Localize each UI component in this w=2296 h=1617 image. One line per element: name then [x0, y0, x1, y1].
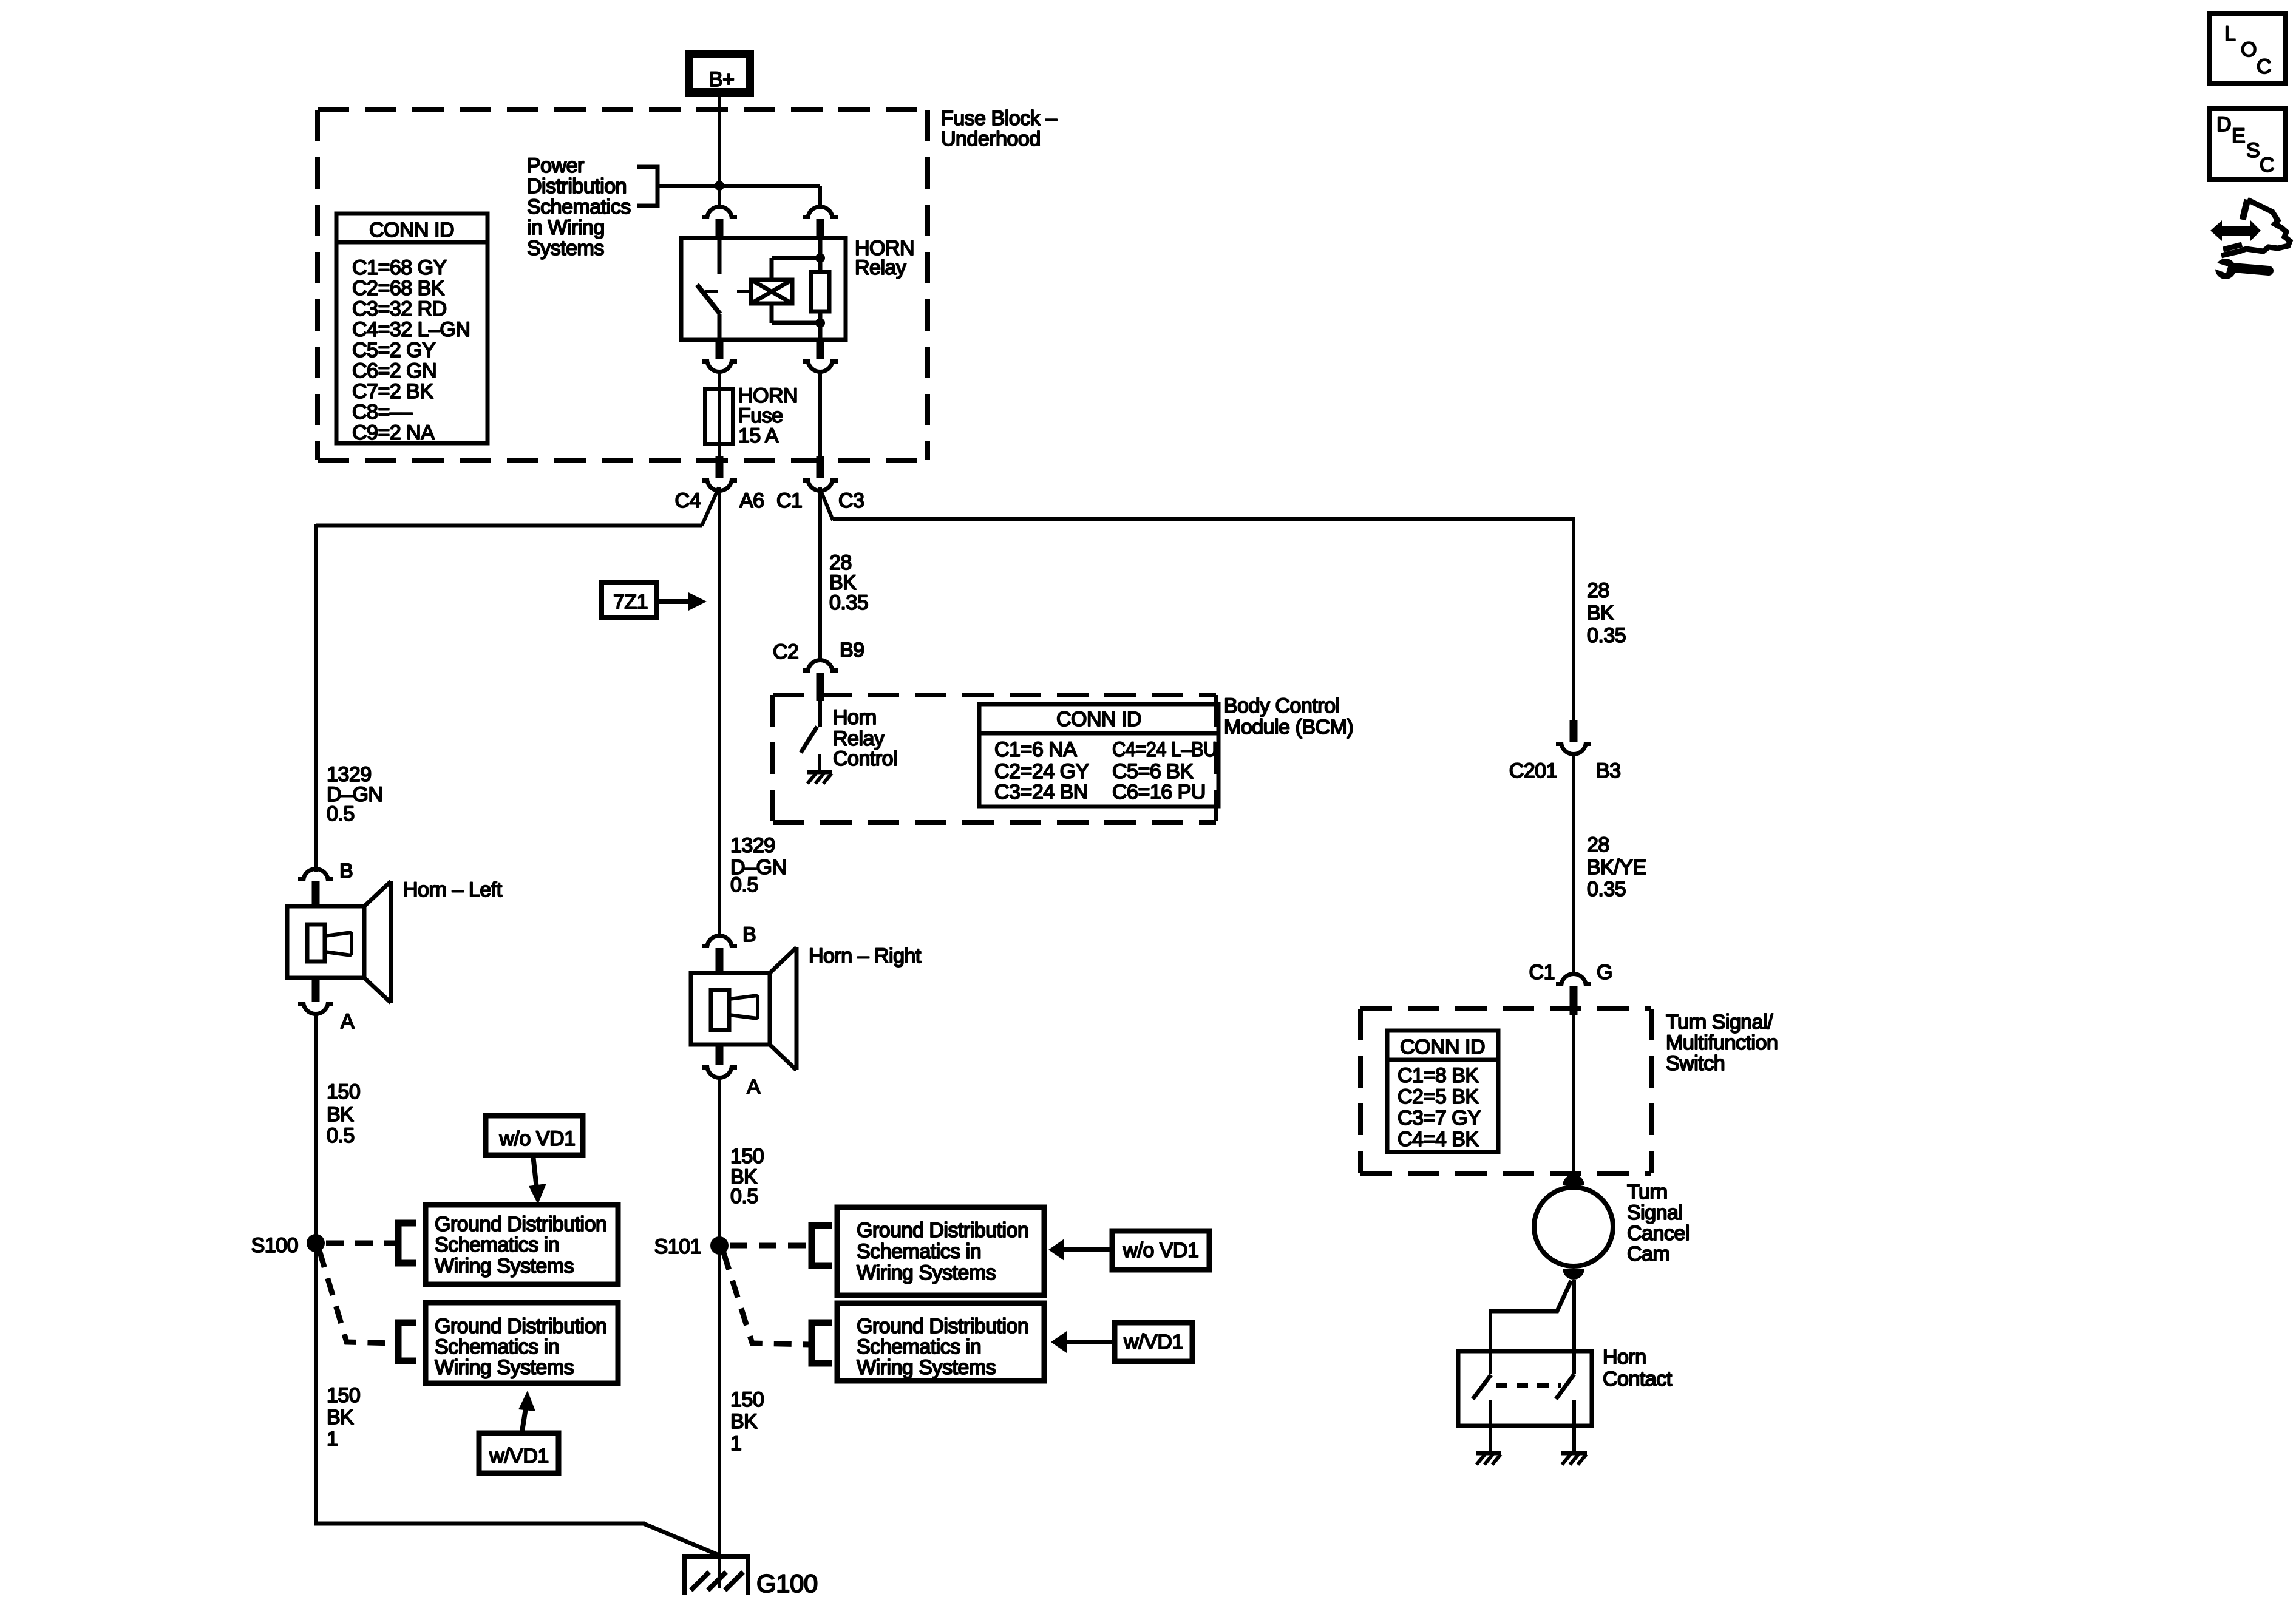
svg-text:C9=2 NA: C9=2 NA — [352, 421, 435, 444]
svg-text:Cancel: Cancel — [1627, 1222, 1690, 1245]
svg-text:Ground Distribution: Ground Distribution — [857, 1315, 1028, 1338]
power distribution reference bracket — [637, 167, 657, 206]
svg-text:Ground Distribution: Ground Distribution — [435, 1213, 606, 1236]
ground distribution reference box 2 left — [426, 1303, 618, 1383]
svg-text:Power: Power — [527, 154, 584, 177]
wire fuse to C4 pin — [718, 444, 721, 457]
svg-text:Wiring Systems: Wiring Systems — [435, 1255, 574, 1278]
svg-text:C5=2 GY: C5=2 GY — [352, 339, 435, 362]
pin bar into horn left — [312, 881, 320, 908]
svg-text:28: 28 — [1587, 833, 1609, 856]
icon LOC box — [2209, 13, 2285, 83]
wire relay right branch down — [818, 370, 822, 457]
svg-text:7Z1: 7Z1 — [613, 591, 648, 614]
svg-text:C201: C201 — [1509, 759, 1557, 782]
horn contact lever linkage — [1557, 1281, 1571, 1312]
svg-text:C2: C2 — [773, 640, 798, 663]
svg-text:0.5: 0.5 — [327, 802, 355, 825]
wire from B+ down to junction — [718, 97, 721, 188]
node S101 splice — [710, 1236, 729, 1255]
arrow 7Z1 to wire — [656, 599, 690, 604]
ground chassis left horn contact — [1476, 1451, 1501, 1456]
wire center vertical down to horn right — [718, 487, 721, 938]
svg-text:BK: BK — [327, 1103, 354, 1126]
horn relay control fixed contact — [818, 754, 821, 771]
svg-text:1: 1 — [730, 1432, 741, 1455]
bracket ground distribution 1 center — [812, 1225, 832, 1266]
svg-text:150: 150 — [327, 1080, 360, 1103]
relay coil bottom lead — [770, 303, 774, 323]
pin bar through fuse block edge right — [817, 456, 824, 478]
svg-text:S100: S100 — [251, 1234, 298, 1257]
svg-text:Control: Control — [833, 747, 897, 770]
svg-text:BK: BK — [327, 1406, 354, 1429]
horn contact left blade — [1473, 1375, 1491, 1399]
svg-text:C3=7 GY: C3=7 GY — [1398, 1107, 1481, 1130]
horn contact left fixed contact — [1489, 1400, 1492, 1451]
svg-text:CONN ID: CONN ID — [1056, 708, 1141, 731]
wire C1 down to BCM — [818, 487, 822, 662]
wire horn right down to S101 — [718, 1076, 721, 1246]
svg-text:C1=8 BK: C1=8 BK — [1398, 1064, 1479, 1087]
svg-text:C6=2 GN: C6=2 GN — [352, 359, 436, 382]
svg-text:Underhood: Underhood — [941, 127, 1041, 151]
label 7Z1 circuit box — [602, 582, 656, 617]
arrow w/o VD1 to box1 left — [533, 1155, 537, 1188]
pin bar through fuse block edge left — [716, 456, 724, 478]
horn right cone — [770, 947, 796, 973]
svg-text:C1=68 GY: C1=68 GY — [352, 256, 447, 279]
pin bar into C201 — [1570, 720, 1578, 742]
cam follower lower contact — [1563, 1269, 1584, 1280]
icon DESC box — [2209, 109, 2285, 180]
horn right inner element — [711, 990, 729, 1030]
svg-text:Contact: Contact — [1603, 1368, 1673, 1391]
svg-text:Body Control: Body Control — [1224, 694, 1340, 717]
connector cup below relay left — [705, 359, 734, 374]
svg-text:0.35: 0.35 — [829, 591, 868, 614]
svg-text:C4: C4 — [675, 489, 701, 512]
svg-text:A: A — [341, 1010, 355, 1033]
relay switch fixed wire — [718, 240, 722, 274]
svg-text:Multifunction: Multifunction — [1666, 1031, 1778, 1054]
fuse block - underhood dashed box — [318, 107, 928, 112]
connector cup horn left A — [301, 1002, 330, 1016]
connector cup below relay right — [806, 359, 835, 374]
svg-text:1329: 1329 — [730, 834, 775, 857]
svg-text:O: O — [2241, 38, 2257, 61]
node coil-resistor top junction — [815, 253, 825, 263]
wire relay to fuse — [718, 370, 721, 392]
svg-text:C5=6 BK: C5=6 BK — [1112, 760, 1194, 783]
svg-text:Relay: Relay — [855, 256, 906, 279]
node coil-resistor bottom junction — [815, 318, 825, 328]
pin bar below relay right — [817, 340, 824, 359]
conn id table BCM — [979, 704, 1218, 807]
svg-text:B: B — [339, 859, 353, 883]
svg-text:S: S — [2246, 139, 2260, 162]
svg-text:S101: S101 — [654, 1235, 701, 1258]
svg-text:Ground Distribution: Ground Distribution — [857, 1219, 1028, 1242]
horn contact box — [1458, 1351, 1592, 1426]
svg-text:C: C — [2260, 154, 2274, 177]
svg-text:Turn Signal/: Turn Signal/ — [1666, 1011, 1773, 1034]
ground distribution reference box 2 center — [837, 1303, 1044, 1381]
horn right body box — [691, 973, 770, 1045]
horn relay control switch wire — [818, 699, 822, 727]
bracket ground distribution 2 left — [398, 1323, 416, 1361]
svg-text:Systems: Systems — [527, 237, 604, 260]
bracket ground distribution 2 center — [812, 1323, 832, 1363]
wire right vertical down to C201 — [1572, 517, 1575, 722]
connector cap above relay left pin — [705, 205, 734, 219]
connector cap horn right B — [705, 934, 734, 948]
dashed wire S101 to ground distribution 1 — [730, 1243, 809, 1249]
svg-text:C: C — [2257, 55, 2271, 78]
horn contact gang link dashed — [1496, 1383, 1561, 1388]
ground chassis right horn contact — [1561, 1451, 1587, 1456]
relay switch blade — [697, 285, 720, 314]
svg-text:C1: C1 — [776, 489, 802, 512]
svg-text:BK: BK — [730, 1410, 758, 1433]
relay coil left lead — [737, 290, 751, 293]
arrow w/VD1 to box2 center — [1051, 1331, 1067, 1353]
pin bar below horn left — [312, 976, 320, 1002]
svg-text:0.5: 0.5 — [730, 1185, 758, 1208]
svg-text:C7=2 BK: C7=2 BK — [352, 380, 433, 403]
svg-text:Wiring Systems: Wiring Systems — [435, 1356, 574, 1379]
horn left inner trumpet — [325, 932, 352, 936]
svg-text:0.35: 0.35 — [1587, 624, 1626, 647]
horn left inner element — [307, 924, 325, 961]
body control module dashed box — [773, 693, 1216, 697]
wire left vertical down to horn left — [314, 524, 318, 872]
svg-text:C1=6 NA: C1=6 NA — [994, 738, 1077, 761]
svg-text:C6=16 PU: C6=16 PU — [1112, 781, 1206, 804]
svg-text:150: 150 — [327, 1384, 360, 1407]
ground distribution reference box 1 center — [837, 1207, 1044, 1295]
label w/o VD1 left box — [486, 1116, 583, 1155]
arrow w/VD1 to box2 left — [522, 1408, 526, 1431]
svg-text:w/VD1: w/VD1 — [1123, 1331, 1183, 1354]
svg-text:Turn: Turn — [1627, 1181, 1668, 1204]
svg-text:Horn: Horn — [833, 706, 877, 729]
svg-text:Wiring Systems: Wiring Systems — [857, 1356, 996, 1379]
bracket ground distribution 1 left — [398, 1223, 416, 1263]
relay coil box with X — [751, 280, 792, 303]
turn signal multifunction switch dashed box — [1360, 1006, 1651, 1011]
turn signal cancel cam circle — [1534, 1187, 1613, 1266]
svg-text:Horn – Left: Horn – Left — [403, 878, 503, 901]
label w/o VD1 right box — [1112, 1231, 1209, 1270]
svg-text:G: G — [1597, 961, 1612, 984]
relay HORN Relay box — [681, 238, 846, 340]
svg-text:B9: B9 — [840, 639, 864, 662]
connector cap C2 B9 — [806, 658, 835, 673]
svg-text:G100: G100 — [756, 1569, 818, 1598]
svg-text:C1: C1 — [1529, 961, 1555, 984]
ground chassis inside BCM — [807, 770, 832, 775]
node B+ battery feed terminal — [685, 50, 754, 97]
horn left body box — [287, 906, 364, 978]
svg-text:1: 1 — [327, 1428, 338, 1451]
svg-text:A6: A6 — [739, 489, 764, 512]
svg-text:15 A: 15 A — [738, 424, 779, 447]
svg-text:BK/YE: BK/YE — [1587, 856, 1646, 879]
connector cup C1 C3 — [806, 478, 835, 493]
svg-text:C2=5 BK: C2=5 BK — [1398, 1085, 1479, 1108]
relay switch lower wire — [718, 314, 722, 340]
pin bar below relay left — [716, 340, 724, 359]
svg-text:CONN ID: CONN ID — [369, 219, 454, 242]
svg-text:C3=32 RD: C3=32 RD — [352, 297, 447, 320]
cam follower upper contact — [1563, 1175, 1584, 1185]
svg-text:Schematics in: Schematics in — [435, 1233, 559, 1256]
wire junction to power distribution bracket — [657, 184, 719, 188]
svg-text:0.5: 0.5 — [730, 873, 758, 897]
svg-text:L: L — [2224, 22, 2235, 46]
pin bar into horn right — [716, 948, 724, 975]
fuse HORN Fuse 15 A — [705, 389, 733, 444]
svg-text:Horn – Right: Horn – Right — [809, 944, 922, 968]
ground distribution reference box 1 left — [426, 1205, 618, 1284]
svg-text:w/o VD1: w/o VD1 — [1123, 1239, 1199, 1262]
pin bar into relay left — [716, 219, 724, 239]
connector cap above relay right pin — [806, 205, 835, 219]
svg-text:Schematics: Schematics — [527, 195, 631, 219]
connector cup C4 A6 — [705, 478, 734, 493]
svg-text:C2=24 GY: C2=24 GY — [994, 760, 1089, 783]
svg-text:Switch: Switch — [1666, 1052, 1725, 1075]
horn relay control switch blade — [801, 727, 817, 753]
node junction on B+ feed — [715, 181, 724, 191]
svg-text:0.35: 0.35 — [1587, 878, 1626, 901]
label w/VD1 left box — [479, 1433, 559, 1473]
horn contact right fixed contact — [1572, 1400, 1576, 1451]
svg-text:Wiring Systems: Wiring Systems — [857, 1261, 996, 1284]
relay resistor branch lower wire — [818, 311, 823, 340]
pin bar below horn right — [716, 1043, 724, 1065]
svg-text:w/VD1: w/VD1 — [489, 1445, 549, 1468]
dashed wire S100 to ground distribution 1 — [326, 1241, 396, 1246]
dashed wire S100 to ground distribution 2 — [319, 1250, 396, 1343]
horn right inner trumpet — [729, 995, 758, 999]
svg-text:C2=68 BK: C2=68 BK — [352, 277, 445, 300]
ground G100 symbol — [682, 1554, 687, 1595]
relay resistor — [811, 272, 829, 311]
connector cap horn left B — [301, 867, 330, 881]
svg-text:Cam: Cam — [1627, 1242, 1669, 1266]
svg-text:C3=24 BN: C3=24 BN — [994, 781, 1088, 804]
svg-text:C4=32 L–GN: C4=32 L–GN — [352, 318, 470, 341]
wire horn left down to S100 — [314, 1012, 318, 1244]
svg-text:BK: BK — [1587, 602, 1614, 625]
pin bar into turn signal switch — [1570, 986, 1578, 1015]
wire inside turn signal switch to cam — [1572, 1012, 1575, 1176]
svg-text:A: A — [747, 1076, 761, 1099]
svg-text:CONN ID: CONN ID — [1400, 1036, 1485, 1059]
svg-text:Module (BCM): Module (BCM) — [1224, 716, 1353, 739]
wire branch to left horn — [702, 487, 719, 526]
svg-text:150: 150 — [730, 1388, 764, 1411]
icon double arrow with hand — [2210, 220, 2261, 241]
wire S100 down and across to G100 — [314, 1243, 318, 1525]
pin bar into relay right — [817, 219, 824, 239]
horn left cone — [364, 881, 391, 906]
svg-text:B+: B+ — [709, 68, 735, 91]
conn id table fuse block — [336, 214, 487, 443]
pin bar into BCM — [817, 673, 824, 701]
wire junction to relay coil branch — [719, 184, 820, 188]
svg-text:150: 150 — [730, 1145, 764, 1168]
horn contact right blade — [1556, 1374, 1574, 1399]
arrow w/o VD1 to box1 center — [1048, 1239, 1064, 1261]
svg-text:B: B — [742, 923, 756, 946]
svg-text:Schematics in: Schematics in — [857, 1240, 981, 1263]
svg-text:C4=24 L–BU: C4=24 L–BU — [1112, 738, 1217, 761]
connector cap C1 G — [1559, 972, 1588, 986]
svg-text:Horn: Horn — [1603, 1346, 1646, 1369]
svg-text:Fuse Block –: Fuse Block – — [941, 107, 1057, 130]
svg-text:C4=4 BK: C4=4 BK — [1398, 1128, 1479, 1151]
svg-text:Schematics in: Schematics in — [435, 1335, 559, 1358]
svg-text:in Wiring: in Wiring — [527, 216, 605, 239]
connector cup C201 B3 — [1559, 742, 1588, 756]
icon wrench — [2215, 259, 2236, 279]
svg-text:Distribution: Distribution — [527, 175, 627, 198]
svg-text:Signal: Signal — [1627, 1201, 1683, 1224]
svg-text:28: 28 — [1587, 579, 1609, 602]
dashed wire S101 to ground distribution 2 — [724, 1253, 809, 1344]
svg-text:D: D — [2216, 113, 2231, 136]
svg-text:B3: B3 — [1596, 759, 1621, 782]
relay resistor branch upper wire — [818, 240, 823, 272]
svg-text:w/o VD1: w/o VD1 — [499, 1127, 576, 1150]
svg-text:C3: C3 — [838, 489, 864, 512]
node S100 splice — [307, 1234, 325, 1252]
wire S101 down to G100 — [718, 1246, 721, 1588]
svg-text:Schematics in: Schematics in — [857, 1335, 981, 1358]
svg-text:E: E — [2232, 124, 2245, 147]
label w/VD1 right box — [1115, 1323, 1192, 1361]
conn id table turn signal switch — [1387, 1031, 1498, 1152]
connector cup horn right A — [705, 1065, 734, 1080]
svg-text:Ground Distribution: Ground Distribution — [435, 1315, 606, 1338]
svg-text:0.5: 0.5 — [327, 1124, 355, 1147]
wire cam to horn contact right — [1572, 1280, 1576, 1374]
wire C201 to turn signal switch — [1572, 752, 1575, 973]
wire branch to right horizontal — [820, 487, 833, 520]
svg-text:C8=––: C8=–– — [352, 401, 412, 424]
wire junction to relay pin 1 — [718, 186, 721, 209]
relay coil top lead — [770, 258, 774, 280]
